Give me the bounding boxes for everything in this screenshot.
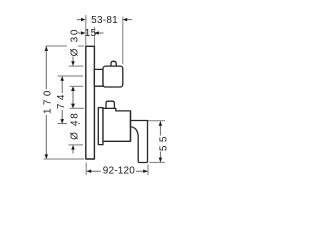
- svg-text:55: 55: [159, 133, 170, 151]
- svg-text:15: 15: [85, 28, 97, 39]
- svg-text:92-120: 92-120: [103, 166, 136, 177]
- svg-text:53-81: 53-81: [91, 15, 118, 26]
- svg-text:170: 170: [43, 87, 54, 114]
- svg-text:Ø 48: Ø 48: [70, 111, 81, 139]
- svg-text:Ø 30: Ø 30: [70, 28, 81, 56]
- svg-text:74: 74: [56, 91, 67, 109]
